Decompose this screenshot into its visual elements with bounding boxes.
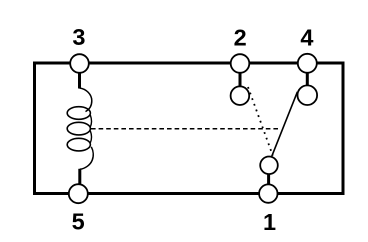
wire: pin 4 stem to NO fixed contact bbox=[306, 72, 309, 87]
pin 2 terminal circle bbox=[231, 54, 250, 73]
svg-text:2: 2 bbox=[234, 24, 247, 50]
wire: pin 2 stem to NC fixed contact bbox=[239, 72, 242, 88]
dashed mechanical linkage from coil to armature bbox=[91, 128, 281, 130]
pin 4 terminal circle bbox=[298, 54, 317, 73]
pin label 1 bbox=[263, 209, 276, 235]
pin label 4 bbox=[300, 24, 313, 50]
wire: coil lead down to pin 5 bbox=[78, 169, 81, 185]
wire: pin 3 lead into coil bbox=[78, 72, 81, 89]
armature alternate position (dotted) toward pin 2 contact bbox=[248, 87, 273, 156]
coil L1 (relay coil between pins 3 and 5) bbox=[67, 88, 93, 169]
pin label 3 bbox=[72, 24, 85, 50]
pin 5 terminal circle bbox=[69, 184, 88, 203]
pin 3 terminal circle bbox=[70, 54, 89, 73]
pin 1 terminal circle bbox=[259, 184, 277, 202]
armature (solid) closed to pin 4 contact bbox=[272, 92, 298, 156]
svg-text:5: 5 bbox=[72, 209, 85, 235]
pin label 5 bbox=[72, 209, 85, 235]
relay case outline bbox=[35, 63, 344, 194]
pin 2 fixed contact circle (NC) bbox=[231, 86, 250, 105]
svg-text:4: 4 bbox=[300, 24, 313, 50]
pin 4 fixed contact circle (NO) bbox=[298, 85, 318, 105]
svg-text:3: 3 bbox=[72, 24, 85, 50]
svg-text:1: 1 bbox=[263, 209, 276, 235]
common armature contact circle (pin 1) bbox=[260, 157, 278, 175]
wire: pin 1 stem to common armature contact bbox=[267, 174, 270, 186]
pin label 2 bbox=[234, 24, 247, 50]
